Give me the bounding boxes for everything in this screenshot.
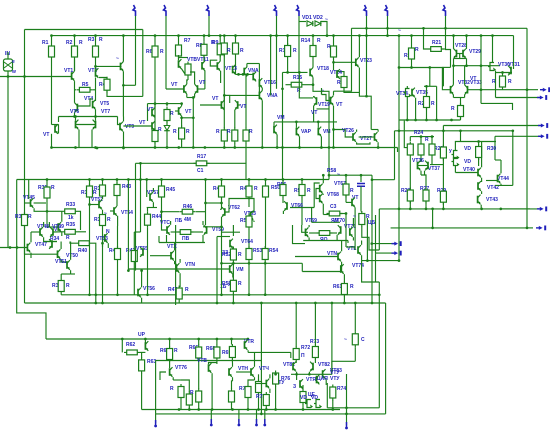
svg-text:VTУ: VTУ <box>330 370 340 376</box>
junction <box>465 64 468 67</box>
junction <box>312 83 315 86</box>
junction <box>94 293 97 296</box>
svg-text:VD1: VD1 <box>302 15 312 21</box>
svg-text:R: R <box>216 129 220 135</box>
wire base of VT19 <box>299 72 313 98</box>
wire x95 down <box>92 243 96 303</box>
junction <box>248 178 251 181</box>
transistor VT3 <box>121 62 124 72</box>
wire R8 to VT11 <box>203 55 205 62</box>
svg-text:~: ~ <box>116 56 119 62</box>
wire <box>256 410 258 423</box>
resistor R69b <box>229 389 235 405</box>
svg-text:R: R <box>28 214 32 220</box>
transistor VT59 <box>204 225 207 235</box>
transistor VT37 <box>425 161 428 171</box>
diode-transistor VT34 <box>404 89 412 98</box>
junction <box>320 146 323 149</box>
wire y172 <box>455 172 478 174</box>
junction <box>425 119 428 122</box>
wire <box>265 180 267 185</box>
wire base tie y57 <box>179 57 189 59</box>
junction <box>23 75 26 78</box>
wire <box>186 94 188 98</box>
wire <box>295 303 297 347</box>
wire <box>234 143 236 148</box>
junction <box>204 146 207 149</box>
resistor R12c <box>243 128 249 144</box>
port <box>536 227 540 229</box>
junction <box>261 146 264 149</box>
wire x443 down <box>442 68 444 87</box>
wire VT6 emitter <box>78 130 80 149</box>
svg-text:~: ~ <box>325 17 328 23</box>
wire <box>194 94 196 98</box>
wire <box>24 211 26 213</box>
svg-text:VT69: VT69 <box>305 218 317 224</box>
wire <box>166 235 168 243</box>
svg-text:R7: R7 <box>184 38 191 44</box>
resistor R74 <box>330 385 336 401</box>
junction <box>354 302 357 305</box>
wire <box>102 228 104 243</box>
wire to VD3 <box>166 121 168 126</box>
wire VT8 emitter <box>51 134 53 148</box>
transistor VT84 <box>266 379 269 389</box>
wire top loop <box>247 63 260 65</box>
wire y241 <box>44 237 57 241</box>
junction <box>220 293 223 296</box>
wire base zigzag <box>334 130 354 138</box>
junction <box>499 208 502 211</box>
wire port5 drop <box>298 16 300 72</box>
junction <box>435 119 438 122</box>
svg-text:R21: R21 <box>432 40 441 46</box>
wire <box>420 137 422 142</box>
wire <box>216 361 218 365</box>
wire base tie <box>457 53 464 55</box>
wire y179 right <box>372 179 395 181</box>
port <box>538 125 542 127</box>
wire x379 down <box>378 209 380 250</box>
junction <box>168 338 171 341</box>
resistor R9 <box>217 41 223 57</box>
wire base ladder x259 <box>258 64 260 96</box>
svg-text:VT51: VT51 <box>55 259 67 265</box>
wire R11 top <box>223 36 225 41</box>
wire VT44 c <box>500 160 502 173</box>
junction <box>88 203 91 206</box>
wire <box>170 221 172 225</box>
wire stub <box>397 148 399 153</box>
transistor VT28 <box>454 49 457 59</box>
wire <box>502 89 504 91</box>
wire <box>409 137 411 141</box>
junction <box>465 34 468 37</box>
wire <box>247 350 249 352</box>
resistor R57 <box>299 182 305 198</box>
junction <box>88 178 91 181</box>
wire x135 down <box>135 163 137 230</box>
svg-text:VT: VT <box>212 96 218 102</box>
wire VT34 e down <box>406 97 408 121</box>
junction <box>211 408 214 411</box>
wire comp line right <box>206 163 246 179</box>
diode-transistor VT39 <box>452 158 460 167</box>
port <box>364 5 367 16</box>
wire y67 link <box>399 67 443 69</box>
svg-text:VNA: VNA <box>267 93 278 99</box>
wire port7 drop <box>387 16 389 36</box>
svg-text:e: e <box>12 59 15 65</box>
svg-text:П: П <box>301 353 305 359</box>
wire <box>248 180 250 185</box>
resistor R44 <box>145 212 151 228</box>
svg-text:VT64: VT64 <box>241 239 253 245</box>
wire <box>110 210 114 212</box>
junction <box>431 135 434 138</box>
transistor VT68 <box>320 194 323 204</box>
wire input rail x8 <box>7 77 9 248</box>
transistor VT72 <box>358 245 361 255</box>
resistor R8 <box>201 42 207 58</box>
junction <box>314 302 317 305</box>
wire VT6 col <box>75 117 77 121</box>
junction <box>526 227 529 230</box>
wire VT5 e down <box>95 109 97 116</box>
wire VT9 emitter <box>123 132 125 149</box>
wire y86 <box>424 85 437 87</box>
resistor R25 <box>418 142 424 158</box>
junction <box>127 269 130 272</box>
port <box>207 5 210 16</box>
svg-text:VT9: VT9 <box>125 124 134 130</box>
resistor R63 <box>139 357 145 373</box>
svg-text:R2: R2 <box>66 40 73 46</box>
transistor VT75 <box>145 341 148 351</box>
junction <box>422 27 425 30</box>
svg-text:R17: R17 <box>197 154 206 160</box>
svg-text:VD: VD <box>464 159 471 165</box>
wire <box>198 405 200 410</box>
svg-text:N: N <box>106 229 110 235</box>
wire VT26 c <box>356 130 358 132</box>
wire VT1 emitter col <box>74 81 76 103</box>
svg-text:R72: R72 <box>301 345 310 351</box>
svg-text:VT26: VT26 <box>342 128 354 134</box>
junction <box>50 34 53 37</box>
wire port3 drop <box>208 16 210 36</box>
svg-text:VAP: VAP <box>301 129 312 135</box>
wire x301 down <box>302 225 308 232</box>
resistor R11b <box>221 128 227 144</box>
wire <box>378 282 380 295</box>
resistor R75 <box>263 392 269 408</box>
wire mid port drop <box>346 374 348 425</box>
wire <box>127 258 129 271</box>
svg-text:R: R <box>425 137 429 143</box>
transistor VT58 <box>167 225 170 235</box>
wire x346 lower <box>345 214 347 248</box>
wire <box>133 232 135 248</box>
wire emitter x355 <box>354 207 356 250</box>
transistor VT9 <box>120 122 123 132</box>
svg-text:VT: VT <box>43 132 49 138</box>
junction <box>116 293 119 296</box>
wire <box>61 259 67 265</box>
wire VT25 base lk <box>322 95 331 101</box>
wire x292 down <box>293 225 306 244</box>
junction <box>265 408 268 411</box>
transistor VT49 <box>50 227 53 237</box>
port <box>392 252 396 254</box>
wire R14 btm <box>312 59 314 68</box>
junction <box>425 208 428 211</box>
svg-text:VM: VM <box>277 115 285 121</box>
transistor VT14 <box>244 67 247 77</box>
wire port6 drop <box>366 16 368 36</box>
junction <box>386 34 389 37</box>
resistor R38 <box>100 183 106 199</box>
wire <box>158 236 160 243</box>
wire <box>220 208 222 210</box>
resistor R76 <box>273 371 279 387</box>
junction <box>232 262 235 265</box>
wire VT33 c up <box>464 66 466 85</box>
junction <box>154 102 157 105</box>
wire <box>460 131 462 142</box>
wire <box>223 143 225 148</box>
wire <box>43 222 45 227</box>
junction <box>332 61 335 64</box>
wire <box>34 202 46 204</box>
wire port1 drop <box>135 16 137 85</box>
junction <box>477 140 480 143</box>
wire y141 box <box>461 141 497 143</box>
wire <box>295 362 297 364</box>
wire VCC bus H2 <box>52 35 514 37</box>
svg-text:C1: C1 <box>197 168 204 174</box>
junction <box>298 146 301 149</box>
wire y269 long <box>128 268 229 270</box>
junction <box>345 413 348 416</box>
port <box>238 419 240 424</box>
wire R4 bottom to H1drop <box>107 91 143 97</box>
wire x372 lower <box>371 244 373 303</box>
wire <box>406 86 408 88</box>
wire y65 bus <box>454 65 501 67</box>
junction <box>326 34 329 37</box>
wire base tie <box>418 165 429 167</box>
wire input2 <box>0 247 27 249</box>
junction <box>248 262 251 265</box>
junction <box>216 302 219 305</box>
wire <box>171 231 178 233</box>
transistor VT78 <box>229 367 232 377</box>
svg-text:R: R <box>160 49 164 55</box>
transistor VT41 <box>478 168 481 178</box>
junction <box>219 34 222 37</box>
wire y72 link <box>283 71 308 73</box>
wire <box>323 214 328 216</box>
transistor VT43 <box>478 195 481 205</box>
wire VT29 c <box>466 36 468 49</box>
wire y374 <box>291 373 332 375</box>
svg-text:~: ~ <box>398 28 401 34</box>
wire <box>455 142 460 151</box>
junction <box>247 338 250 341</box>
junction <box>431 208 434 211</box>
svg-text:~: ~ <box>337 172 340 178</box>
svg-text:VT7: VT7 <box>101 109 110 115</box>
wire VT4 base link <box>77 99 92 106</box>
resistor R4 <box>104 77 110 93</box>
wire x394 drop <box>394 131 396 180</box>
wire bus y303 <box>25 302 386 304</box>
svg-text:R: R <box>238 252 242 258</box>
wire <box>352 218 354 227</box>
wire <box>502 89 504 91</box>
wire base y126 <box>123 125 152 127</box>
wire port4 drop <box>276 16 278 89</box>
transistor VT85 <box>300 379 303 389</box>
diode D4 <box>314 400 322 409</box>
svg-text:R58: R58 <box>327 168 336 174</box>
junction <box>459 129 462 132</box>
junction <box>450 119 453 122</box>
junction <box>428 66 431 69</box>
wire R33 right <box>78 211 81 230</box>
wire R5 left <box>75 89 77 91</box>
wire VT4 e down <box>74 112 76 116</box>
junction <box>365 95 368 98</box>
svg-text:R1: R1 <box>42 40 49 46</box>
svg-text:R: R <box>107 217 111 223</box>
wire R3 top <box>95 36 97 44</box>
wire <box>211 373 213 409</box>
junction <box>286 34 289 37</box>
wire box left <box>155 361 157 414</box>
wire box top y103 <box>148 103 182 105</box>
svg-text:VD: VD <box>300 395 307 401</box>
wire y74 tie <box>236 73 254 75</box>
resistor R2 <box>72 44 78 60</box>
junction <box>331 302 334 305</box>
transistor VT86 <box>317 375 320 385</box>
svg-text:VT: VT <box>139 120 145 126</box>
svg-text:R73: R73 <box>310 339 319 345</box>
wire <box>116 198 118 206</box>
wire input base bus <box>0 76 72 78</box>
wire R12 btm <box>235 57 237 75</box>
junction <box>192 116 195 119</box>
junction <box>94 115 97 118</box>
wire c <box>181 104 183 106</box>
wire R22 btm <box>426 109 428 121</box>
svg-text:R62: R62 <box>126 342 135 348</box>
resistor R19 <box>458 103 464 119</box>
wire VT47 c <box>30 232 32 242</box>
resistor R13 <box>285 43 291 59</box>
junction <box>298 71 301 74</box>
resistor R73 <box>312 344 318 360</box>
wire x217 down <box>216 237 218 304</box>
wire bottom bus y409 <box>142 409 340 411</box>
wire <box>141 271 143 288</box>
wire <box>107 243 109 248</box>
resistor R69 <box>229 344 235 360</box>
wire <box>61 232 63 236</box>
wire <box>175 110 179 112</box>
wire bus y227 <box>391 227 527 229</box>
wire bus y130 <box>395 130 514 132</box>
wire VT26 e <box>357 142 370 144</box>
port <box>155 420 157 425</box>
svg-text:R3: R3 <box>88 37 95 43</box>
wire <box>269 374 271 378</box>
transistor VT2 <box>96 68 99 78</box>
junction <box>420 135 423 138</box>
svg-text:VT18: VT18 <box>317 66 329 72</box>
resistor R22 <box>424 94 430 110</box>
junction <box>264 178 267 181</box>
wire VT23 collector to H2 <box>358 36 360 58</box>
wire VT27 e down <box>377 142 379 147</box>
wire <box>424 171 426 175</box>
junction <box>101 302 104 305</box>
svg-text:R: R <box>227 48 231 54</box>
wire y227 <box>47 226 58 228</box>
junction <box>480 34 483 37</box>
wire corner x404 <box>404 121 409 148</box>
wire x282 upper <box>282 72 284 88</box>
wire <box>290 352 292 358</box>
junction <box>501 71 504 74</box>
port <box>164 5 167 16</box>
junction <box>208 34 211 37</box>
junction <box>377 146 380 149</box>
wire H3 to R21 <box>424 28 429 49</box>
wire <box>360 187 362 212</box>
port <box>540 89 544 91</box>
junction <box>295 373 298 376</box>
resistor R58b <box>343 182 349 198</box>
wire <box>425 202 427 209</box>
svg-text:VT68: VT68 <box>327 192 339 198</box>
svg-text:VT5: VT5 <box>100 101 109 107</box>
junction <box>425 85 428 88</box>
wire <box>308 238 310 241</box>
wire VT45 c up <box>28 180 30 200</box>
wire <box>275 386 277 410</box>
svg-text:R: R <box>66 235 70 241</box>
junction <box>144 338 147 341</box>
junction <box>442 208 445 211</box>
wire port line y253 <box>376 252 395 254</box>
junction <box>345 174 348 177</box>
wire <box>333 232 338 234</box>
svg-text:VT82: VT82 <box>318 362 330 368</box>
junction <box>160 210 163 213</box>
wire R24 btm long <box>409 158 411 209</box>
resistor R53 <box>246 246 252 262</box>
junction <box>398 259 401 262</box>
wire <box>452 95 454 98</box>
junction <box>386 27 389 30</box>
transistor VT19b <box>235 100 238 110</box>
resistor R71 <box>256 379 262 395</box>
wire to R44b <box>181 116 183 127</box>
